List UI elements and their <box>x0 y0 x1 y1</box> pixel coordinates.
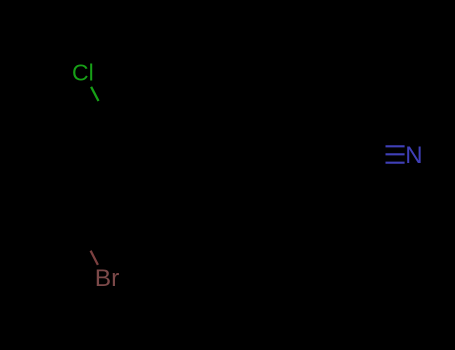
svg-text:N: N <box>405 142 422 169</box>
svg-text:Br: Br <box>95 265 120 292</box>
svg-text:Cl: Cl <box>72 60 94 86</box>
